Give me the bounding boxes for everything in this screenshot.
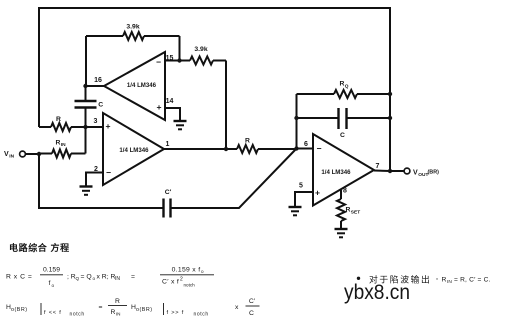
wire U3 output xyxy=(374,170,390,173)
footnote xyxy=(357,274,491,286)
svg-text:+: + xyxy=(315,187,320,197)
svg-text:0.159: 0.159 xyxy=(43,267,60,274)
ground (RSET) xyxy=(335,229,348,237)
svg-text:o: o xyxy=(52,283,55,288)
svg-text:=: = xyxy=(99,304,103,311)
svg-text:Q: Q xyxy=(345,84,349,90)
svg-text:SET: SET xyxy=(351,209,360,215)
svg-text:notch: notch xyxy=(194,312,209,318)
svg-text:o(BR): o(BR) xyxy=(11,307,28,313)
svg-text:IN: IN xyxy=(447,279,452,285)
svg-text:IN: IN xyxy=(116,312,121,317)
svg-text:o: o xyxy=(93,276,96,281)
svg-text:ybx8.cn: ybx8.cn xyxy=(344,281,410,304)
svg-text:C: C xyxy=(249,310,254,317)
wire pin 14 to ground xyxy=(165,108,180,120)
terminal VIN xyxy=(4,151,39,160)
terminal VOUT xyxy=(404,168,439,178)
wire to VOUT terminal xyxy=(390,170,404,172)
svg-text:C′ x f: C′ x f xyxy=(162,279,179,286)
svg-text:6: 6 xyxy=(304,141,308,148)
wire outer feedback loop xyxy=(39,8,390,171)
svg-text:7: 7 xyxy=(376,163,380,170)
resistor RQ xyxy=(297,81,391,99)
op-amp U1 1/4 LM346 (mirrored, output left) xyxy=(104,52,165,120)
svg-text:3.9k: 3.9k xyxy=(126,24,139,31)
svg-text:f >> f: f >> f xyxy=(167,310,185,316)
svg-text:3.9k: 3.9k xyxy=(194,46,207,53)
capacitor C' xyxy=(164,189,172,218)
equation line 2 xyxy=(6,298,260,318)
node pin 16 (U1 output) xyxy=(83,84,87,88)
svg-text:·: · xyxy=(436,275,438,284)
wire pin 3 xyxy=(86,126,104,128)
svg-text:C: C xyxy=(340,132,345,139)
svg-text:1/4 LM346: 1/4 LM346 xyxy=(321,169,351,176)
svg-text:−: − xyxy=(156,57,161,67)
resistor 3.9k (feedback around U1) xyxy=(86,24,180,87)
svg-text:R: R xyxy=(115,298,120,305)
svg-text:V: V xyxy=(4,151,9,158)
svg-text:R: R xyxy=(111,309,116,316)
svg-text:16: 16 xyxy=(94,77,102,84)
svg-text:C: C xyxy=(98,102,103,109)
svg-text:Q: Q xyxy=(76,276,80,281)
svg-text:(BR): (BR) xyxy=(428,170,440,176)
svg-text:f << f: f << f xyxy=(44,310,62,316)
resistor R (middle) xyxy=(237,138,297,154)
wire U2 output xyxy=(164,148,237,150)
node 3.9k junction on output xyxy=(224,147,228,151)
wire VIN down to C' xyxy=(39,154,163,208)
svg-text:o(BR): o(BR) xyxy=(136,307,153,313)
svg-text:; R: ; R xyxy=(67,274,76,281)
svg-text:= Q: = Q xyxy=(81,274,92,281)
resistor RSET xyxy=(337,190,360,228)
svg-text:8: 8 xyxy=(343,188,347,195)
wire U1 output to apex xyxy=(86,85,105,87)
node pin 15 junction xyxy=(177,58,181,62)
resistor 3.9k (U1 to U2 output) xyxy=(180,46,227,149)
svg-text:f: f xyxy=(49,280,51,287)
capacitor C (right feedback) xyxy=(297,108,391,139)
svg-text:1: 1 xyxy=(166,141,170,148)
svg-text:IN: IN xyxy=(61,142,66,148)
ground (pin 5) xyxy=(289,207,302,215)
svg-text:5: 5 xyxy=(299,183,303,190)
svg-text:x R; R: x R; R xyxy=(97,274,116,281)
svg-text:−: − xyxy=(316,143,321,153)
svg-text:R: R xyxy=(442,277,447,284)
wire branch up to RQ / C xyxy=(296,94,298,149)
op-amp U3 1/4 LM346 xyxy=(313,134,374,206)
wire pin 5 to ground xyxy=(295,192,313,206)
resistor R (left) xyxy=(39,116,86,131)
node output xyxy=(388,169,392,173)
ground (pin 2) xyxy=(80,187,93,195)
node VIN junction xyxy=(37,152,41,156)
op-amp U2 1/4 LM346 xyxy=(103,113,164,185)
svg-text:R: R xyxy=(346,207,351,214)
svg-text:1/4 LM346: 1/4 LM346 xyxy=(127,82,157,89)
node C left xyxy=(294,116,298,120)
svg-text:IN: IN xyxy=(115,276,120,282)
wire pin 15 xyxy=(165,60,180,62)
svg-text:−: − xyxy=(106,167,111,177)
wire pin 6 xyxy=(297,148,314,150)
svg-text:R: R xyxy=(245,138,250,145)
node RQ right xyxy=(388,92,392,96)
svg-text:C′: C′ xyxy=(249,298,256,305)
svg-text:+: + xyxy=(156,102,161,112)
equation line 1 xyxy=(6,267,214,289)
svg-text:= R, C′ = C.: = R, C′ = C. xyxy=(454,277,491,284)
wire C' to pin 6 node xyxy=(172,149,297,209)
node pin 3 xyxy=(83,125,87,129)
svg-text:o: o xyxy=(201,269,204,274)
svg-text:V: V xyxy=(413,170,418,177)
svg-text:14: 14 xyxy=(166,98,174,105)
svg-text:C′: C′ xyxy=(165,189,172,196)
svg-text:R: R xyxy=(56,116,61,123)
wire pin 2 to ground xyxy=(86,173,103,186)
node C right xyxy=(388,116,392,120)
svg-text:1/4 LM346: 1/4 LM346 xyxy=(119,147,149,154)
svg-text:0.159 x f: 0.159 x f xyxy=(172,267,201,274)
svg-text:=: = xyxy=(131,274,135,281)
node pin 6 xyxy=(294,146,298,150)
capacitor C (integrator) xyxy=(75,86,104,127)
svg-text:+: + xyxy=(105,121,110,131)
svg-text:IN: IN xyxy=(9,154,14,160)
svg-text:电路综合 方程: 电路综合 方程 xyxy=(9,242,70,253)
svg-text:R: R xyxy=(56,140,61,147)
svg-text:notch: notch xyxy=(184,283,196,288)
svg-text:notch: notch xyxy=(70,312,85,318)
svg-text:R: R xyxy=(340,81,345,88)
resistor RIN xyxy=(39,127,86,158)
svg-text:3: 3 xyxy=(94,118,98,125)
svg-text:x: x xyxy=(235,304,239,311)
ground (pin 14) xyxy=(174,121,187,129)
svg-text:R x C =: R x C = xyxy=(6,274,32,281)
